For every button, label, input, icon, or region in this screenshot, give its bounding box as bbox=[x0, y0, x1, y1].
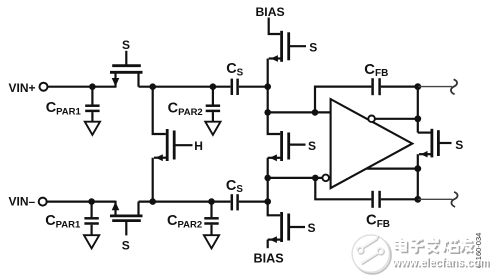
wire CS top right plate to middle rail bbox=[239, 86, 268, 88]
wire middle rail top section bbox=[267, 59, 269, 113]
wire break squiggle top bbox=[451, 79, 457, 94]
wire break squiggle bottom bbox=[451, 192, 457, 207]
transistor S (right output shorting switch) bbox=[418, 129, 452, 158]
node amp bottom output / rail bbox=[414, 165, 421, 172]
node CPAR1 top bbox=[89, 83, 96, 90]
node CFB top / output rail bbox=[414, 83, 421, 90]
transistor S (top-left series switch) bbox=[110, 51, 143, 88]
wire amp bottom input bbox=[268, 177, 323, 179]
op-amp U1 bbox=[331, 99, 413, 188]
node amp bottom input junction bbox=[264, 175, 271, 182]
capacitor CPAR2 bottom bbox=[204, 202, 218, 235]
wire H transistor source down to VIN- rail bbox=[152, 158, 154, 202]
svg-text:S: S bbox=[308, 221, 316, 235]
ground (CPAR1 bottom) bbox=[84, 235, 99, 248]
svg-text:VIN–: VIN– bbox=[9, 194, 36, 208]
wire amp top input bbox=[268, 111, 331, 113]
wire S switch drain lead to middle node bbox=[139, 86, 231, 88]
svg-text:S: S bbox=[122, 38, 130, 52]
svg-text:S: S bbox=[308, 139, 316, 153]
node CFB bottom tap bbox=[312, 175, 319, 182]
transistor S (bottom-left series switch) bbox=[110, 201, 143, 236]
wire output rail lower bbox=[417, 154, 419, 199]
svg-text:H: H bbox=[194, 139, 203, 153]
wire middle rail bottom section bbox=[267, 178, 269, 202]
svg-text:S: S bbox=[455, 138, 463, 152]
wire CS bottom right plate to middle rail bbox=[239, 201, 268, 203]
wire CFB bottom to output rail bbox=[381, 198, 418, 200]
capacitor CFB top bbox=[373, 78, 380, 95]
node amp top input junction bbox=[264, 109, 271, 116]
node CFB top tap bbox=[312, 109, 319, 116]
node CPAR2 top bbox=[210, 83, 217, 90]
svg-text:CS: CS bbox=[226, 61, 243, 78]
wire CFB bottom leg bbox=[315, 178, 371, 199]
watermark text elecfans bbox=[394, 237, 473, 253]
wire VIN+ to S switch source lead bbox=[48, 86, 116, 88]
wire output rail upper bbox=[417, 87, 419, 133]
svg-text:CPAR1: CPAR1 bbox=[45, 213, 81, 230]
node VIN- terminal bbox=[39, 198, 47, 206]
wire S switch drain lead to CS bottom bbox=[139, 201, 231, 203]
svg-text:S: S bbox=[122, 239, 130, 253]
node amp inverting input bubble bbox=[322, 175, 329, 182]
svg-text:CFB: CFB bbox=[364, 62, 388, 79]
capacitor CS bottom bbox=[232, 194, 238, 210]
svg-text:BIAS: BIAS bbox=[256, 5, 285, 19]
wire output bottom stub bbox=[418, 198, 453, 200]
capacitor CS top bbox=[232, 79, 238, 95]
capacitor CFB bottom bbox=[373, 191, 380, 208]
watermark url www.elecfans.com bbox=[392, 256, 491, 270]
wire CFB top leg bbox=[315, 87, 371, 113]
node CFB bottom / output rail bbox=[414, 196, 421, 203]
node VIN+ terminal bbox=[40, 83, 48, 91]
svg-text:CFB: CFB bbox=[366, 213, 390, 230]
node H-switch bottom tap bbox=[149, 198, 156, 205]
capacitor CPAR2 top bbox=[206, 87, 220, 122]
svg-text:BIAS: BIAS bbox=[254, 252, 284, 266]
wire CFB top to output rail bbox=[381, 85, 418, 87]
svg-text:S: S bbox=[309, 41, 317, 55]
wire VIN- to S switch source lead bbox=[47, 201, 116, 203]
ground (CPAR2 bottom) bbox=[204, 235, 219, 248]
node CPAR1 bottom bbox=[88, 198, 95, 205]
node VIN- rail / middle rail bbox=[264, 198, 271, 205]
svg-text:CS: CS bbox=[226, 178, 243, 195]
capacitor CPAR1 top bbox=[85, 87, 99, 122]
transistor H (hold switch) bbox=[154, 129, 193, 161]
wire node to H transistor drain bbox=[153, 87, 166, 134]
svg-text:CPAR2: CPAR2 bbox=[168, 100, 203, 117]
svg-text:CPAR1: CPAR1 bbox=[46, 100, 82, 117]
transistor BIAS bottom bbox=[268, 202, 305, 249]
ground (CPAR1 top) bbox=[85, 122, 100, 135]
node H-switch top tap bbox=[149, 83, 156, 90]
watermark logo circle bbox=[352, 235, 391, 274]
transistor BIAS top bbox=[269, 18, 306, 62]
wire output top stub bbox=[418, 86, 452, 88]
transistor S (middle shorting switch) bbox=[268, 112, 306, 177]
node amp top output / rail bbox=[414, 115, 421, 122]
wire amp bottom output bbox=[367, 168, 418, 170]
node CPAR2 bottom bbox=[208, 198, 215, 205]
svg-text:CPAR2: CPAR2 bbox=[167, 213, 202, 230]
node amp top output bubble bbox=[368, 116, 375, 123]
svg-text:VIN+: VIN+ bbox=[9, 81, 36, 95]
wire amp top output bbox=[375, 118, 418, 120]
ground (CPAR2 top) bbox=[205, 122, 220, 135]
svg-text:www.elecfans.com: www.elecfans.com bbox=[392, 256, 490, 269]
node BIAS top rail junction bbox=[264, 83, 271, 90]
capacitor CPAR1 bottom bbox=[84, 202, 98, 235]
